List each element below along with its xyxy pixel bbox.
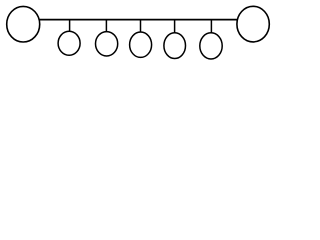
node 2 [96,32,118,56]
bus line [40,19,238,21]
node 5 [200,33,222,59]
node 1 [58,31,80,55]
stem 2 [105,20,107,32]
hub node left [7,6,40,42]
stem 1 [69,20,71,32]
stem 4 [174,20,176,34]
node 3 [130,32,152,57]
stem 3 [140,20,142,33]
hub node right [237,6,269,42]
stem 5 [210,20,212,34]
node 4 [164,33,186,59]
